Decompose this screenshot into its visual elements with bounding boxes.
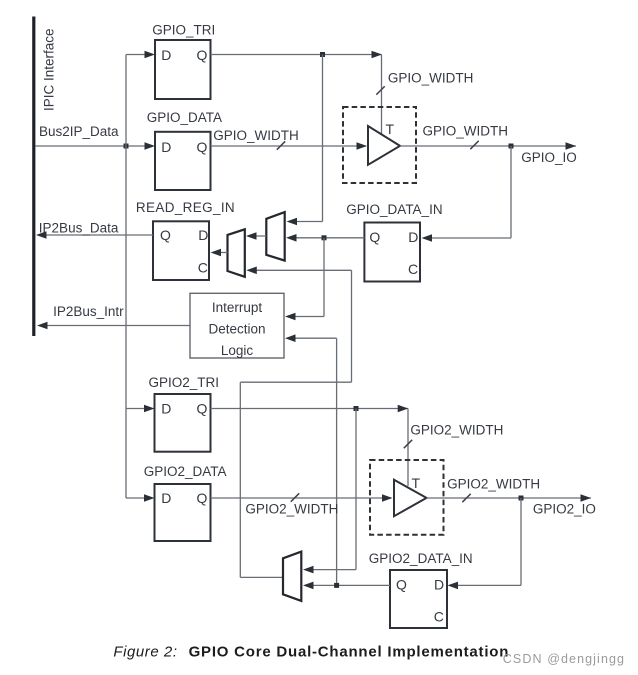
wire IP2Bus_Data (40, 234, 153, 236)
wire GPIO_TRI readback horizontal (290, 221, 323, 223)
flip-flop GPIO2_DATA_IN (390, 570, 447, 628)
wire GPIO2_TRI readback vertical (355, 409, 357, 570)
wire to GPIO_TRI D (126, 54, 146, 56)
wire Bus2IP_Data (36, 145, 151, 147)
arrow GPIO_IO (566, 142, 577, 150)
wire ch2 read feed horizontal (250, 269, 352, 271)
node Bus2IP junction (124, 144, 129, 149)
wire IP2Bus_Intr (41, 325, 190, 327)
wire IDL input2 horizontal (289, 337, 337, 339)
bus-width slash control ch1 (376, 86, 384, 94)
wire GPIO2_TRI Q output (211, 408, 409, 410)
svg-text:IPIC Interface: IPIC Interface (42, 28, 57, 111)
svg-text:GPIO_IO: GPIO_IO (521, 150, 577, 165)
svg-text:D: D (434, 577, 444, 593)
arrow IP2Bus_Data (36, 231, 47, 239)
wire GPIO2_IO feedback vertical (520, 498, 522, 585)
bus-width slash data ch1 (277, 141, 285, 149)
wire ch2 read feed bottom (240, 576, 283, 578)
node GPIO_DATA_IN Q junction (322, 235, 327, 240)
svg-text:C: C (434, 609, 444, 625)
wire IDL input2 vertical (336, 338, 338, 585)
wire GPIO_TRI readback vertical (322, 55, 324, 222)
arrow into read mux1 input2 (286, 234, 297, 242)
svg-text:C: C (198, 260, 208, 276)
svg-text:IP2Bus_Intr: IP2Bus_Intr (53, 304, 124, 319)
wire GPIO2_DATA_IN Q output (307, 584, 390, 586)
svg-text:GPIO Core Dual-Channel Impleme: GPIO Core Dual-Channel Implementation (189, 644, 510, 661)
wire GPIO_TRI Q output (211, 54, 382, 56)
svg-text:D: D (198, 227, 208, 243)
arrow at tri-state control corner (372, 51, 383, 59)
arrow into tri-state buffer ch1 (357, 142, 368, 150)
svg-text:T: T (386, 121, 395, 137)
arrow into mux ch2 input1 (303, 566, 314, 574)
svg-text:GPIO_TRI: GPIO_TRI (152, 22, 215, 37)
bus-width slash out ch1 (470, 141, 478, 149)
svg-text:T: T (412, 475, 421, 491)
wire tri-state control vertical ch2 (407, 409, 409, 487)
svg-text:Q: Q (160, 227, 171, 243)
wire IDL input1 vertical (323, 238, 325, 317)
svg-text:GPIO_WIDTH: GPIO_WIDTH (423, 124, 509, 139)
svg-text:Detection: Detection (208, 321, 265, 336)
flip-flop GPIO_DATA_IN (364, 223, 420, 282)
bus-width slash control ch2 (404, 440, 412, 448)
wire read mux1 output (250, 235, 266, 237)
wire to GPIO2_TRI D (126, 408, 146, 410)
svg-text:CSDN @dengjingg: CSDN @dengjingg (503, 652, 625, 666)
mux read final (228, 229, 245, 276)
node GPIO2_TRI Q junction (354, 406, 359, 411)
svg-text:D: D (161, 490, 171, 506)
arrow into GPIO2_DATA D (144, 494, 155, 502)
arrow GPIO2_IO (581, 494, 592, 502)
svg-text:D: D (161, 47, 171, 63)
svg-text:Interrupt: Interrupt (212, 300, 263, 315)
wire GPIO_IO feedback vertical (510, 146, 512, 238)
arrow at tri-state control corner ch2 (398, 405, 409, 413)
wire to GPIO2_DATA D (126, 497, 146, 499)
svg-text:D: D (161, 139, 171, 155)
block Interrupt Detection Logic (190, 293, 284, 358)
arrow into GPIO_TRI D (145, 51, 156, 59)
svg-text:GPIO2_IO: GPIO2_IO (533, 502, 596, 517)
svg-text:Q: Q (197, 47, 208, 63)
node GPIO2_DATA_IN Q junction (334, 583, 339, 588)
arrow into GPIO2_DATA_IN D (448, 582, 459, 590)
wire GPIO_DATA Q output (211, 145, 367, 147)
node GPIO_IO junction (509, 144, 514, 149)
arrow into mux ch2 input2 (303, 582, 314, 590)
arrow IP2Bus_Intr (37, 322, 48, 330)
wire GPIO_DATA_IN Q output (290, 237, 364, 239)
mux read ch2 (283, 552, 301, 601)
wire GPIO2_DATA Q output (211, 497, 392, 499)
dashed enclosure ch1 (343, 107, 416, 183)
arrow into GPIO2_TRI D (144, 405, 155, 413)
arrow into READ_REG_IN D (211, 249, 222, 257)
svg-text:Logic: Logic (221, 343, 254, 358)
arrow into read mux2 input1 (246, 232, 257, 240)
svg-text:GPIO_WIDTH: GPIO_WIDTH (213, 128, 299, 143)
node GPIO_TRI Q junction (320, 52, 325, 57)
flip-flop GPIO2_DATA (155, 484, 211, 541)
bus-width slash data ch2 (291, 493, 299, 501)
svg-text:Q: Q (197, 139, 208, 155)
flip-flop GPIO_TRI (155, 40, 211, 99)
wire bus distribution vertical (125, 55, 127, 499)
wire buffer output ch1 (400, 145, 576, 147)
svg-text:D: D (161, 401, 171, 417)
arrow into IDL input1 (285, 313, 296, 321)
svg-text:READ_REG_IN: READ_REG_IN (136, 200, 235, 215)
svg-text:Bus2IP_Data: Bus2IP_Data (39, 124, 119, 139)
flip-flop GPIO_DATA (155, 132, 211, 190)
svg-text:GPIO2_TRI: GPIO2_TRI (149, 375, 220, 390)
wire read mux2 output (214, 252, 228, 254)
svg-text:GPIO2_DATA_IN: GPIO2_DATA_IN (369, 551, 473, 566)
svg-text:GPIO2_WIDTH: GPIO2_WIDTH (245, 502, 338, 517)
svg-text:GPIO2_DATA: GPIO2_DATA (144, 464, 227, 479)
svg-text:Figure 2:: Figure 2: (113, 644, 177, 661)
tri-state buffer T ch2 (394, 480, 427, 517)
wire ch2 read feed horizontal mid (240, 381, 351, 383)
svg-text:Q: Q (197, 401, 208, 417)
svg-text:GPIO_DATA_IN: GPIO_DATA_IN (346, 202, 442, 217)
svg-text:D: D (408, 229, 418, 245)
dashed enclosure ch2 (370, 460, 444, 535)
wire ch2 read feed vertical upper (351, 270, 353, 382)
wire tri-state control vertical (381, 55, 383, 135)
node GPIO2_IO junction (519, 496, 524, 501)
svg-text:GPIO_DATA: GPIO_DATA (147, 110, 222, 125)
arrow into read mux1 input1 (287, 218, 298, 226)
arrow into read mux2 input2 (246, 267, 256, 275)
wire GPIO2_IO feedback horizontal (451, 584, 521, 586)
arrow into IDL input2 (285, 334, 296, 342)
svg-text:GPIO2_WIDTH: GPIO2_WIDTH (410, 423, 503, 438)
svg-text:GPIO_WIDTH: GPIO_WIDTH (388, 71, 474, 86)
svg-text:Q: Q (396, 577, 407, 593)
wire GPIO_IO feedback horizontal (425, 237, 511, 239)
wire ch2 read feed vertical lower (239, 382, 241, 577)
mux read ch1 (266, 212, 284, 261)
tri-state buffer T ch1 (368, 126, 400, 165)
bus-width slash out ch2 (462, 494, 470, 502)
svg-text:GPIO2_WIDTH: GPIO2_WIDTH (447, 477, 540, 492)
arrow into GPIO_DATA D (145, 142, 156, 150)
svg-text:Q: Q (197, 490, 208, 506)
arrow into GPIO_DATA_IN D (422, 234, 433, 242)
arrow into tri-state buffer ch2 (382, 494, 393, 502)
flip-flop READ_REG_IN (153, 221, 209, 280)
wire GPIO2_TRI readback horizontal (307, 569, 356, 571)
wire IDL input1 horizontal (289, 316, 324, 318)
IPIC interface bus bar (32, 17, 35, 337)
svg-text:IP2Bus_Data: IP2Bus_Data (39, 221, 119, 236)
svg-text:C: C (408, 261, 418, 277)
wire buffer output ch2 (427, 497, 592, 499)
svg-text:Q: Q (369, 229, 380, 245)
flip-flop GPIO2_TRI (155, 394, 211, 452)
